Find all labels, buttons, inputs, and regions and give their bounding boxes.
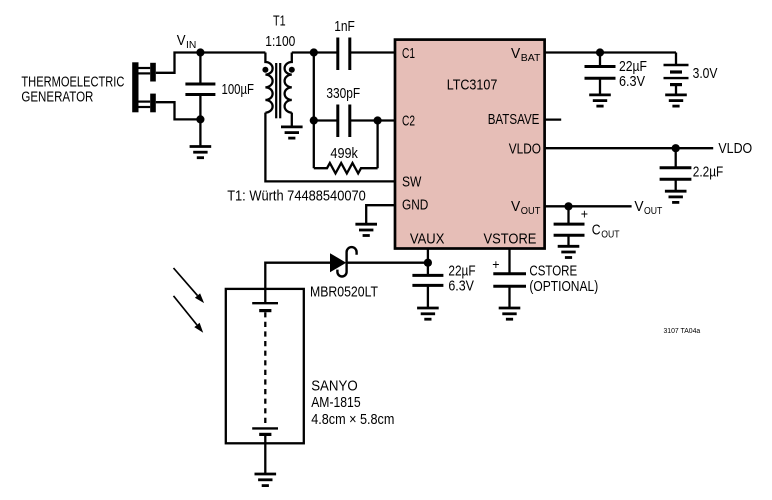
svg-text:V: V	[634, 199, 643, 215]
node 330pF right	[374, 116, 382, 124]
ground below 2.2uF	[665, 191, 687, 202]
node VIN	[196, 48, 204, 56]
node C1 junction	[310, 48, 318, 56]
svg-text:SW: SW	[402, 175, 422, 191]
ground below CSTORE	[499, 308, 521, 319]
svg-text:1:100: 1:100	[265, 34, 295, 50]
ground below COUT	[558, 246, 580, 257]
label COUT	[592, 222, 620, 240]
T1 core	[275, 63, 277, 118]
svg-text:3.0V: 3.0V	[693, 66, 718, 82]
label VIN	[177, 33, 197, 51]
svg-text:VLDO: VLDO	[718, 141, 752, 157]
battery 3.0V	[664, 53, 718, 95]
T1 primary phase dot	[262, 67, 268, 73]
wire TEG upper terminal to VIN node	[156, 53, 201, 73]
svg-text:100µF: 100µF	[222, 82, 255, 98]
solar cell box SANYO AM-1815	[226, 289, 304, 443]
label CSTORE (OPTIONAL)	[529, 264, 598, 295]
svg-text:LTC3107: LTC3107	[447, 77, 498, 93]
wire T1 primary bottom to SW pin	[265, 113, 394, 182]
light arrow 2	[174, 296, 204, 333]
light arrow 1	[174, 268, 205, 303]
svg-text:THERMOELECTRIC: THERMOELECTRIC	[21, 75, 124, 91]
svg-text:BATSAVE: BATSAVE	[488, 112, 540, 128]
T1 primary winding	[265, 53, 272, 113]
node VOUT	[564, 202, 572, 210]
capacitor 2.2uF	[660, 148, 724, 190]
capacitor COUT	[554, 206, 585, 245]
svg-text:V: V	[511, 46, 520, 62]
wire TEG lower terminal to 100uF bottom node	[156, 102, 201, 119]
ground below VAUX 22uF	[417, 308, 439, 319]
svg-text:(OPTIONAL): (OPTIONAL)	[529, 279, 598, 295]
svg-text:4.8cm × 5.8cm: 4.8cm × 5.8cm	[311, 412, 394, 428]
svg-text:SANYO: SANYO	[311, 379, 358, 395]
capacitor CSTORE	[493, 274, 526, 307]
svg-text:C: C	[592, 222, 601, 238]
ground below battery	[665, 95, 687, 106]
capacitor 22uF 6.3V (VAUX)	[412, 263, 475, 307]
svg-text:VLDO: VLDO	[509, 142, 541, 158]
svg-text:330pF: 330pF	[326, 86, 360, 102]
svg-text:V: V	[511, 199, 520, 215]
solar cell bottom battery symbol	[252, 428, 278, 473]
svg-text:VSTORE: VSTORE	[484, 231, 537, 247]
capacitor 330pF	[314, 86, 378, 137]
label THERMOELECTRIC GENERATOR	[21, 75, 124, 106]
label SANYO AM-1815 4.8cm x 5.8cm	[311, 379, 394, 428]
wire T1 secondary bottom to ground	[291, 113, 293, 126]
ground below GND pin	[355, 224, 377, 235]
svg-text:6.3V: 6.3V	[448, 278, 474, 294]
svg-text:T1: T1	[273, 14, 286, 30]
node 330pF left	[310, 116, 318, 124]
label VOUT net	[634, 199, 662, 217]
diode MBR0520LT	[310, 247, 378, 300]
node 100uF bottom	[196, 115, 204, 123]
svg-text:BAT: BAT	[521, 52, 541, 64]
resistor 499k	[314, 121, 378, 174]
svg-text:CSTORE: CSTORE	[529, 264, 577, 280]
svg-text:OUT: OUT	[601, 229, 620, 241]
node VAUX	[424, 259, 432, 267]
svg-text:VAUX: VAUX	[410, 231, 445, 247]
svg-text:V: V	[177, 33, 186, 49]
svg-text:+: +	[492, 257, 499, 272]
wire VAUX pin down	[427, 249, 429, 263]
svg-text:GND: GND	[402, 197, 428, 213]
solar cell top battery symbol	[252, 289, 278, 311]
solar cell internal dashed line	[264, 312, 266, 426]
svg-text:2.2µF: 2.2µF	[693, 165, 724, 181]
svg-text:1nF: 1nF	[334, 19, 355, 35]
wire VBAT pin to battery	[544, 51, 676, 53]
svg-text:AM-1815: AM-1815	[311, 395, 360, 411]
wire T1 secondary top to C1 junction	[292, 51, 314, 53]
wire C1 junction down to 330pF node	[313, 53, 315, 121]
capacitor 1nF	[314, 19, 395, 70]
svg-text:22µF: 22µF	[619, 59, 647, 75]
svg-text:C2: C2	[402, 114, 415, 130]
node VLDO	[672, 144, 680, 152]
wire VOUT pin to VOUT label	[544, 205, 632, 207]
ground below solar cell	[255, 474, 277, 486]
wire 100uF bottom node to ground	[199, 119, 201, 145]
wire VLDO pin to VLDO label	[544, 147, 713, 149]
T1 secondary winding	[285, 53, 292, 113]
ground below 100uF	[190, 147, 212, 158]
svg-text:GENERATOR: GENERATOR	[21, 90, 93, 106]
svg-text:IN: IN	[186, 39, 196, 51]
wire VIN to T1 primary top	[200, 51, 265, 53]
node VBAT 22uF junction	[596, 48, 604, 56]
wire VSTORE pin down	[508, 249, 510, 274]
svg-text:6.3V: 6.3V	[619, 74, 645, 90]
capacitor 22uF 6.3V (VBAT)	[585, 53, 648, 95]
wire 330pF right node to C2 pin	[378, 119, 395, 121]
wire solar cell to diode anode	[265, 263, 331, 289]
svg-text:+: +	[581, 206, 588, 221]
svg-text:499k: 499k	[330, 146, 358, 162]
svg-text:C1: C1	[402, 46, 415, 62]
svg-text:T1: Würth 74488540070: T1: Würth 74488540070	[227, 188, 366, 204]
T1 secondary phase dot	[289, 67, 295, 73]
svg-text:22µF: 22µF	[448, 263, 475, 279]
stub BATSAVE pin	[545, 118, 561, 120]
transformer T1	[262, 14, 295, 119]
wire diode cathode to VAUX node	[346, 262, 428, 264]
svg-text:OUT: OUT	[521, 205, 541, 217]
svg-text:OUT: OUT	[644, 205, 663, 217]
ground below T1 secondary	[281, 127, 303, 138]
IC U1 LTC3107 body	[395, 40, 545, 249]
svg-text:MBR0520LT: MBR0520LT	[310, 284, 378, 300]
thermoelectric generator TEG symbol	[132, 62, 156, 112]
capacitor 100uF	[185, 53, 254, 120]
svg-text:3107 TA04a: 3107 TA04a	[664, 326, 701, 335]
wire GND pin to ground	[366, 205, 395, 223]
ground below VBAT 22uF	[589, 95, 611, 106]
